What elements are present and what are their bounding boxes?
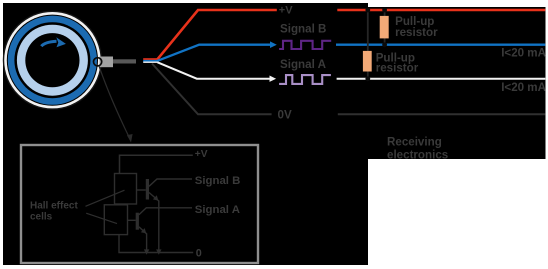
transistor Q-A base lead: [128, 219, 136, 221]
encoder inner gap: [14, 22, 90, 98]
junction dot on Signal A line: [365, 76, 370, 81]
pointer line to lower cell: [86, 213, 117, 223]
junction dot on Signal B line: [382, 42, 387, 47]
svg-text:I<20 mA: I<20 mA: [501, 46, 546, 59]
hall cell upper: [115, 174, 137, 205]
black panel right: [368, 7, 546, 159]
black panel left: [3, 3, 368, 265]
red +V wire: [158, 10, 546, 59]
encoder dark blue ring: [8, 16, 97, 105]
svg-text:resistor: resistor: [395, 26, 438, 39]
svg-text:Signal A: Signal A: [280, 58, 327, 71]
svg-text:I<20 mA: I<20 mA: [501, 81, 546, 94]
junction dot on +V for upper resistor: [382, 8, 387, 13]
blue Signal B wire: [158, 41, 546, 60]
shaft connector circle: [94, 58, 102, 66]
rotation arrow: [41, 37, 66, 47]
detail box frame: [21, 145, 258, 263]
0V black wire: [152, 64, 545, 115]
hall cell lower: [104, 205, 127, 235]
svg-text:electronics: electronics: [387, 148, 448, 161]
transistor Q-A emitter: [139, 227, 147, 253]
pull-up branch line B (upper resistor): [384, 10, 386, 45]
svg-text:0V: 0V: [278, 108, 292, 121]
junction dot on +V for lower resistor: [365, 8, 370, 13]
encoder light blue ring: [17, 25, 88, 96]
emitter arrowhead at rail (Q-A): [144, 249, 149, 254]
pull-up resistor (Signal B): [380, 16, 389, 39]
cable plug: [100, 57, 114, 68]
white Signal A wire: [158, 62, 546, 82]
svg-text:cells: cells: [30, 212, 53, 223]
svg-text:+V: +V: [279, 5, 293, 17]
svg-text:+V: +V: [195, 149, 208, 160]
transistor Q-A base bar: [136, 213, 139, 230]
pointer line to upper cell: [86, 190, 125, 206]
encoder black center: [25, 33, 79, 87]
wire bundle red: [143, 58, 158, 60]
svg-text:Hall effect: Hall effect: [30, 201, 78, 212]
svg-text:Signal A: Signal A: [195, 204, 240, 216]
svg-text:Signal B: Signal B: [280, 23, 326, 36]
wire bundle white: [143, 62, 158, 63]
svg-text:Signal B: Signal B: [195, 175, 241, 187]
transistor Q-B base lead: [137, 189, 146, 191]
cable: [113, 59, 136, 63]
emitter arrowhead at rail (Q-B): [156, 249, 161, 254]
Signal A waveform: [279, 75, 331, 84]
pointer line to detail box: [99, 66, 133, 143]
0 rail in box: [119, 235, 193, 253]
transistor Q-A collector: [139, 208, 192, 215]
encoder body outer outline: [3, 11, 102, 110]
pull-up resistor (Signal A): [363, 51, 372, 72]
transistor Q-B base bar: [146, 179, 149, 200]
transistor Q-B collector: [149, 179, 192, 186]
svg-text:0: 0: [196, 248, 202, 260]
pull-up branch line A (lower resistor): [367, 10, 369, 79]
+V rail in box: [120, 155, 193, 173]
Signal B waveform: [279, 41, 331, 49]
encoder ring separator: [7, 15, 98, 106]
svg-text:resistor: resistor: [376, 61, 419, 74]
svg-text:Receiving: Receiving: [387, 135, 442, 148]
transistor Q-B emitter: [149, 193, 159, 253]
encoder white ring: [4, 12, 100, 108]
wire bundle blue: [143, 60, 158, 62]
